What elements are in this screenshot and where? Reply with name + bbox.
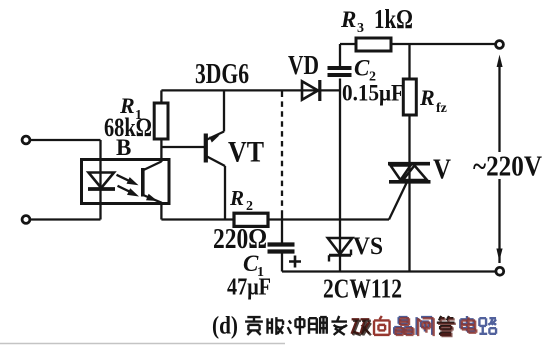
svg-text:VS: VS — [353, 233, 383, 260]
terminal AC top-right — [496, 41, 504, 49]
transistor VT base bar — [204, 134, 208, 163]
wire: C1 top lead — [281, 215, 283, 243]
wire: C2 bottom lead down through VD node and VS to bottom rail — [339, 79, 341, 272]
svg-text:V: V — [433, 155, 451, 186]
wire: VT emitter vertical to top rail — [223, 90, 225, 131]
optocoupler B box — [82, 160, 170, 204]
AC source down arrowhead — [496, 249, 502, 262]
resistor R2 body — [234, 213, 268, 226]
caption hanzi fa — [331, 316, 347, 335]
wire: horizontal run to R2 left lead — [161, 218, 234, 220]
optocoupler light arrow 2 — [118, 186, 140, 197]
wire: C1 bottom lead to bottom rail — [281, 254, 283, 272]
svg-text:~220V: ~220V — [473, 152, 542, 183]
capacitor C1 plates — [268, 245, 295, 252]
caption hanzi chu — [309, 317, 327, 334]
svg-text:R: R — [229, 186, 244, 210]
wire: LED branch vertical through optocoupler — [99, 140, 101, 220]
caption hanzi zha blue+red — [417, 317, 433, 335]
resistor Rfz body — [403, 79, 416, 115]
svg-text:C: C — [354, 56, 370, 81]
wire: AC source line lower segment — [498, 179, 500, 263]
caption hanzi shuang red — [352, 319, 370, 333]
svg-text:2CW112: 2CW112 — [323, 273, 402, 304]
caption hanzi lu blue — [479, 318, 496, 334]
wire: dashed drop from VD anode node to R2/C1 node — [281, 92, 283, 216]
terminal input top-left — [22, 136, 30, 144]
triac V top bar — [388, 162, 430, 166]
svg-text:220Ω: 220Ω — [213, 224, 267, 255]
svg-text:0.15μF: 0.15μF — [342, 81, 404, 106]
svg-text:fz: fz — [436, 101, 447, 116]
resistor R1 body — [154, 103, 168, 139]
transistor VT collector diagonal — [206, 156, 225, 166]
transistor VT emitter diagonal with arrow — [206, 132, 224, 143]
optocoupler B LED cathode bar — [88, 187, 115, 191]
caption hanzi guan dark — [437, 316, 455, 335]
triac V left triangle — [391, 166, 411, 181]
caption hanzi chong — [288, 316, 305, 335]
AC source up arrowhead — [497, 55, 503, 67]
zener diode VS triangle — [328, 238, 352, 254]
wire: bottom-left terminal to LED cathode column — [31, 218, 101, 220]
triac V right triangle — [403, 166, 427, 181]
svg-text:(d): (d) — [212, 313, 238, 340]
terminal input bottom-left — [22, 216, 30, 224]
caption hanzi jing blue+red — [394, 317, 412, 334]
scan artifact gray line bottom — [0, 343, 285, 345]
capacitor C2 plates — [328, 68, 352, 75]
svg-text:3DG6: 3DG6 — [195, 58, 249, 90]
optocoupler phototransistor bar — [141, 168, 145, 197]
wire: AC source line upper segment — [498, 66, 500, 152]
wire: R2 right lead to gate bend (through C1 node) — [268, 218, 389, 220]
diode VD cathode bar — [318, 80, 321, 101]
wire: base node to VT base — [161, 146, 204, 148]
resistor R3 body — [356, 38, 391, 51]
triac V bottom bar — [389, 180, 431, 184]
svg-text:VD: VD — [288, 50, 319, 80]
optocoupler light arrow 1 — [117, 175, 139, 186]
diode VD triangle — [302, 81, 318, 100]
wire: R1 bottom lead to base node and phototransistor collector — [160, 139, 162, 162]
terminal AC bottom-right — [496, 267, 504, 275]
caption hanzi xiang red — [374, 316, 390, 335]
svg-text:R: R — [419, 85, 435, 110]
zener diode VS cathode bar — [329, 250, 351, 262]
capacitor C1 plus sign — [289, 256, 301, 268]
wire: top rail R3 row — [340, 43, 496, 45]
wire: optocoupler emitter down — [160, 203, 162, 220]
svg-text:B: B — [116, 135, 131, 160]
caption hanzi dian blue+red — [460, 316, 474, 332]
wire: VT collector vertical down to R2 wire — [224, 166, 226, 220]
wire: C2 top lead from R3 rail — [339, 44, 341, 67]
wire: Rfz / triac main vertical — [408, 44, 410, 272]
svg-text:47μF: 47μF — [227, 274, 271, 301]
wire: top rail from R1 to C2 node (through VD) — [161, 89, 340, 91]
wire: R1 top lead — [160, 90, 162, 103]
caption hanzi mai — [268, 317, 284, 335]
svg-text:2: 2 — [246, 199, 253, 214]
svg-text:VT: VT — [228, 136, 264, 169]
wire: top-left terminal to LED anode column — [31, 139, 101, 141]
svg-text:R: R — [340, 7, 356, 32]
wire: triac gate diagonal — [389, 183, 407, 220]
caption hanzi kuan — [245, 316, 263, 335]
svg-text:1kΩ: 1kΩ — [374, 4, 413, 34]
optocoupler B LED triangle — [89, 173, 115, 189]
svg-text:3: 3 — [357, 21, 364, 36]
wire: bottom rail — [282, 270, 496, 272]
optocoupler phototransistor collector lead — [144, 162, 162, 171]
optocoupler phototransistor emitter lead with arrow — [143, 194, 162, 203]
